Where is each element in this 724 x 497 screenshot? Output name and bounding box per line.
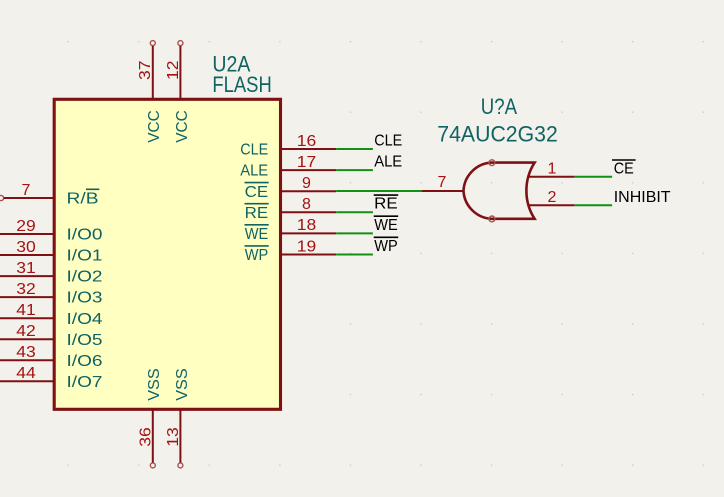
svg-text:WP: WP: [374, 238, 398, 255]
svg-text:VSS: VSS: [174, 368, 191, 401]
pin 13 VSS (bottom): [165, 368, 191, 468]
pin 42 I/O5 (left): [0, 323, 103, 349]
svg-text:CE: CE: [614, 161, 634, 178]
svg-text:I/O6: I/O6: [67, 353, 103, 370]
or-gate U?A body (mirrored, pointing left): [464, 163, 535, 219]
pin 44 I/O7 (left): [0, 365, 103, 391]
pin 31 I/O2 (left): [0, 260, 103, 286]
pin 19 WP (right): [245, 238, 337, 264]
or-gate pin 2 (input, right): [528, 189, 575, 206]
svg-text:RE: RE: [245, 205, 269, 222]
svg-text:13: 13: [165, 427, 182, 447]
svg-text:WP: WP: [245, 247, 269, 264]
pin name R/B (overline on B): [67, 189, 100, 207]
wire net ALE: [336, 169, 373, 171]
net label WE: [374, 216, 399, 234]
svg-text:16: 16: [297, 133, 317, 150]
svg-text:42: 42: [16, 323, 36, 340]
svg-text:I/O7: I/O7: [67, 374, 103, 391]
svg-text:74AUC2G32: 74AUC2G32: [437, 122, 558, 147]
net label RE: [374, 195, 399, 213]
wire net WP: [336, 254, 373, 256]
svg-text:2: 2: [548, 189, 557, 206]
pin 17 ALE (right): [240, 154, 336, 180]
svg-text:18: 18: [297, 217, 317, 234]
svg-text:12: 12: [165, 60, 182, 80]
svg-text:I/O5: I/O5: [67, 332, 103, 349]
pin 37 VCC (top): [137, 41, 163, 143]
svg-text:R/B: R/B: [67, 190, 99, 207]
or-gate pin 1 (input, right): [528, 161, 575, 178]
svg-text:FLASH: FLASH: [212, 72, 271, 97]
net label WP: [374, 237, 399, 255]
svg-text:44: 44: [16, 365, 36, 382]
svg-text:17: 17: [297, 154, 317, 171]
pin 12 VCC (top): [165, 41, 191, 143]
pin 32 I/O3 (left): [0, 281, 103, 307]
or-gate pin 7 (output, left): [422, 174, 464, 191]
wire net INHIBIT: [575, 204, 612, 206]
svg-text:7: 7: [22, 182, 31, 199]
svg-text:31: 31: [16, 260, 36, 277]
svg-text:30: 30: [16, 239, 36, 256]
net label CE (overline): [612, 160, 636, 178]
svg-text:CE: CE: [245, 184, 269, 201]
svg-text:I/O3: I/O3: [67, 290, 103, 307]
svg-text:32: 32: [16, 281, 36, 298]
wire net CLE: [336, 148, 373, 150]
svg-text:9: 9: [302, 175, 311, 192]
pin 16 CLE (right): [240, 133, 336, 159]
svg-text:RE: RE: [374, 196, 398, 213]
svg-text:VCC: VCC: [146, 110, 163, 143]
svg-text:I/O2: I/O2: [67, 269, 103, 286]
svg-text:I/O4: I/O4: [67, 311, 103, 328]
or-gate unconnected pin circle (top): [489, 160, 495, 166]
svg-text:VSS: VSS: [146, 368, 163, 401]
net label CLE: [374, 132, 402, 149]
pin 7 R/B (left, with unconnected end circle): [0, 182, 54, 201]
pin 41 I/O4 (left): [0, 302, 103, 328]
wire net RE: [336, 211, 373, 213]
svg-text:CLE: CLE: [374, 132, 402, 149]
svg-text:U?A: U?A: [481, 94, 517, 119]
svg-text:CLE: CLE: [240, 142, 268, 159]
pin 36 VSS (bottom): [138, 368, 164, 468]
net label ALE: [374, 154, 402, 171]
pin 9 CE (right): [245, 175, 337, 201]
svg-text:ALE: ALE: [240, 163, 268, 180]
svg-text:7: 7: [438, 174, 447, 191]
svg-text:I/O0: I/O0: [67, 227, 103, 244]
svg-text:19: 19: [297, 238, 317, 255]
svg-text:41: 41: [16, 302, 36, 319]
pin 18 WE (right): [245, 217, 337, 243]
svg-text:36: 36: [138, 427, 155, 447]
flash IC U2A body: [54, 99, 280, 409]
wire net CE_gate (flash pin9 to OR gate): [336, 190, 421, 192]
svg-text:29: 29: [16, 218, 36, 235]
svg-text:I/O1: I/O1: [67, 248, 103, 265]
svg-text:ALE: ALE: [374, 154, 402, 171]
wire net CE (to label): [575, 176, 612, 178]
svg-text:INHIBIT: INHIBIT: [614, 189, 671, 206]
svg-text:1: 1: [548, 161, 557, 178]
svg-text:43: 43: [16, 344, 36, 361]
svg-text:VCC: VCC: [174, 110, 191, 143]
svg-text:WE: WE: [245, 226, 269, 243]
pin 8 RE (right): [245, 196, 337, 222]
pin 30 I/O1 (left): [0, 239, 103, 265]
svg-text:37: 37: [137, 60, 154, 80]
wire net WE: [336, 232, 373, 234]
svg-text:WE: WE: [374, 217, 398, 234]
pin 43 I/O6 (left): [0, 344, 103, 370]
or-gate unconnected pin circle (bottom): [489, 216, 495, 222]
pin 29 I/O0 (left): [0, 218, 103, 244]
svg-text:8: 8: [302, 196, 311, 213]
